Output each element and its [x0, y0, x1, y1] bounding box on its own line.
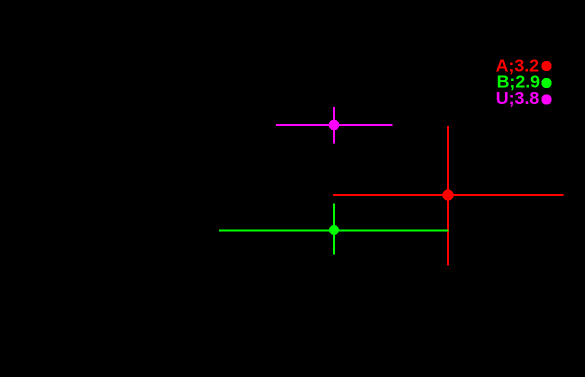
- series A vertical error bar: [447, 126, 449, 266]
- series U horizontal error bar: [276, 124, 393, 126]
- legend entry B marker: [541, 78, 551, 88]
- svg-text:U;3.8: U;3.8: [496, 88, 540, 108]
- series B horizontal error bar: [219, 230, 449, 232]
- legend entry A marker: [541, 61, 551, 71]
- series B vertical error bar: [333, 203, 335, 254]
- series U vertical error bar: [333, 107, 335, 144]
- data point U: [329, 120, 340, 131]
- data point B: [329, 225, 339, 235]
- legend entry U marker: [541, 94, 551, 104]
- series A horizontal error bar: [333, 194, 564, 196]
- data point A: [442, 189, 453, 200]
